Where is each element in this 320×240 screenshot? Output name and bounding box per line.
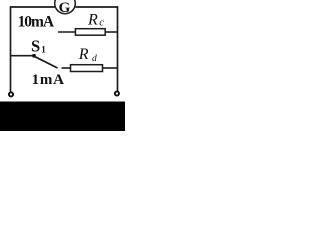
wire: Rc branch right — [105, 31, 118, 33]
resistor Rc — [75, 29, 105, 36]
wire: switch pivot stub — [11, 55, 34, 57]
switch S1 pivot dot — [32, 54, 36, 58]
galvanometer U1 circle G — [55, 0, 76, 14]
switch S1 blade — [34, 56, 58, 68]
background — [0, 0, 125, 131]
svg-text:c: c — [99, 18, 104, 29]
resistor Rd — [71, 65, 103, 72]
svg-text:1mA: 1mA — [32, 72, 65, 88]
wire: Rd branch left — [62, 67, 71, 69]
wire: left vertical side — [10, 6, 12, 92]
svg-text:G: G — [59, 0, 71, 16]
svg-text:10mA: 10mA — [18, 13, 55, 30]
wire: top-right horizontal from galvanometer to right corner — [75, 6, 118, 8]
wire: top-left horizontal from left corner to galvanometer — [11, 6, 55, 8]
terminal: right binding post — [115, 91, 119, 95]
wire: right vertical side — [117, 6, 119, 91]
black band at bottom of figure — [0, 102, 125, 132]
svg-text:S: S — [31, 37, 40, 56]
svg-text:R: R — [78, 46, 89, 63]
wire: Rd branch right — [103, 67, 118, 69]
svg-text:1: 1 — [41, 45, 46, 55]
terminal: left binding post — [9, 92, 13, 96]
svg-text:R: R — [87, 11, 98, 28]
wire: Rc branch left — [58, 31, 75, 33]
svg-text:d: d — [92, 54, 97, 64]
